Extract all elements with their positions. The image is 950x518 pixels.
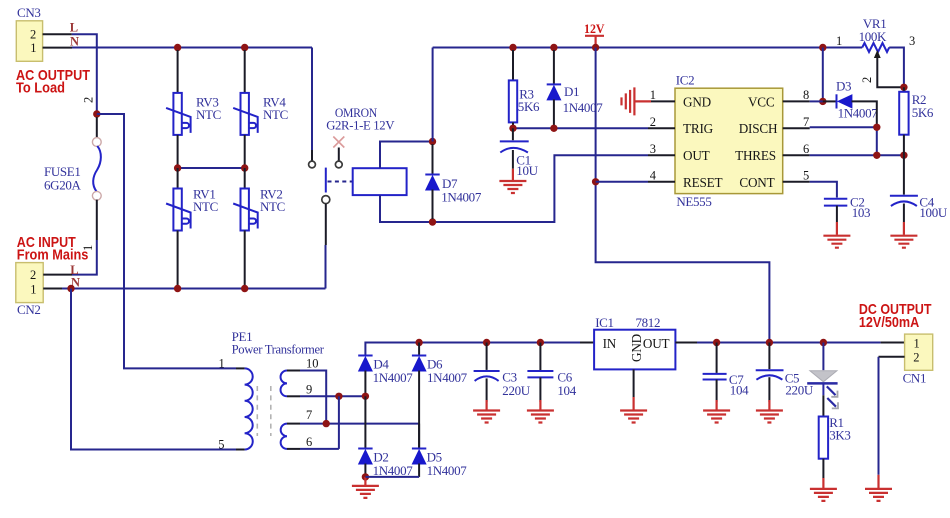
svg-text:IC1: IC1 — [595, 315, 613, 330]
svg-text:220U: 220U — [785, 383, 813, 398]
svg-text:D3: D3 — [836, 79, 851, 94]
svg-text:L: L — [70, 20, 78, 34]
connector CN3 pin 2 stub — [43, 33, 72, 35]
svg-text:2: 2 — [30, 268, 36, 282]
node junction bridge ground — [362, 473, 369, 480]
relay fixed contact circle right — [335, 161, 342, 168]
svg-text:103: 103 — [852, 205, 870, 220]
svg-text:NTC: NTC — [260, 199, 285, 214]
transformer pin 10 wire — [287, 371, 326, 424]
IC1 OUT stub — [675, 342, 697, 344]
IC2 pin 2 stub — [648, 127, 675, 129]
relay fixed contact lead left — [311, 150, 313, 161]
node junction pin9-pin6 — [335, 393, 342, 400]
potentiometer VR1 wiper arrow — [874, 50, 904, 87]
svg-text:1: 1 — [30, 282, 36, 296]
resistor R2 — [899, 92, 908, 135]
capacitor C2 — [824, 199, 847, 206]
ground C2 — [823, 236, 850, 248]
connector CN2 — [16, 263, 43, 303]
wire 12V top rail — [433, 47, 863, 49]
IC2 pin 4 stub — [648, 181, 675, 183]
wire from L junction to transformer pin 1 — [97, 114, 236, 368]
svg-text:IC2: IC2 — [676, 73, 694, 88]
thermistor RV2 lead top — [244, 168, 246, 189]
capacitor C5 — [756, 370, 784, 380]
svg-text:10: 10 — [306, 357, 319, 371]
ground C6 — [527, 411, 554, 423]
svg-text:6: 6 — [306, 435, 312, 449]
thermistor RV3 lead bottom — [177, 135, 179, 168]
wire D5 anode to ground — [365, 476, 419, 478]
node junction THRES-DISCH — [873, 152, 880, 159]
wire pin6 to pin9 vertical — [338, 396, 340, 449]
svg-text:2: 2 — [860, 77, 874, 83]
capacitor C2 ground stem — [836, 222, 838, 235]
connector CN3 pin 1 stub — [43, 47, 72, 49]
wire CN1 pin2 to ground — [878, 357, 880, 475]
svg-text:12V/50mA: 12V/50mA — [859, 314, 919, 331]
capacitor C5 top lead — [768, 343, 770, 370]
LED top lead — [822, 343, 824, 371]
svg-text:1N4007: 1N4007 — [373, 370, 414, 385]
svg-text:1N4007: 1N4007 — [427, 370, 468, 385]
capacitor C4 bottom lead — [903, 204, 905, 223]
diode D5 — [412, 449, 426, 465]
capacitor C7 top lead — [716, 343, 718, 373]
svg-text:104: 104 — [557, 383, 576, 398]
relay fixed contact lead right — [338, 148, 340, 161]
resistor R3 lead top — [512, 50, 514, 80]
svg-text:D1: D1 — [564, 84, 579, 99]
node junction rail-C5 — [766, 339, 773, 346]
node junction relay bottom D7 — [429, 218, 436, 225]
relay unused contact X mark — [333, 137, 344, 148]
svg-text:1: 1 — [30, 41, 36, 55]
diode D6 anode lead — [418, 371, 420, 449]
svg-text:1: 1 — [836, 34, 842, 48]
node junction rail-RV3 — [174, 44, 181, 51]
capacitor C7 ground stem — [715, 400, 717, 410]
resistor R2 lead top — [903, 87, 905, 92]
node junction rail-D6 — [415, 339, 422, 346]
svg-text:RESET: RESET — [683, 175, 722, 190]
fuse FUSE1 wavy element — [93, 146, 101, 192]
capacitor C7 — [703, 374, 727, 380]
wire VCC to IC2 pin8 — [810, 100, 823, 102]
IC2 pin 3 stub — [648, 154, 675, 156]
svg-text:OUT: OUT — [643, 336, 670, 351]
capacitor C6 — [527, 371, 553, 377]
wire fuse bottom to CN2 pin 2 — [72, 240, 97, 275]
connector CN3 — [16, 21, 42, 62]
svg-text:1N4007: 1N4007 — [563, 100, 604, 115]
capacitor C2 bottom lead — [836, 206, 838, 222]
node junction rail-C3 — [483, 339, 490, 346]
svg-text:3: 3 — [650, 142, 656, 156]
capacitor C4 — [890, 196, 918, 206]
transformer primary stub top — [236, 367, 245, 369]
diode D4 anode lead — [364, 371, 366, 394]
svg-text:7: 7 — [803, 115, 809, 129]
wire CN1 pin1 stub — [881, 342, 905, 344]
svg-text:GND: GND — [629, 334, 644, 362]
svg-text:CN1: CN1 — [903, 371, 927, 386]
LED D8 — [807, 371, 838, 409]
ground IC2 pin1 sideways — [622, 87, 652, 115]
node junction DISCH — [873, 124, 880, 131]
capacitor C4 ground stem — [903, 222, 905, 235]
wire CONT to C2 — [810, 182, 837, 198]
capacitor C6 top lead — [539, 343, 541, 371]
thermistor RV2 lead bottom — [244, 231, 246, 289]
svg-text:5: 5 — [803, 169, 809, 183]
ground C7 — [703, 411, 730, 423]
capacitor C7 bottom lead — [716, 380, 718, 403]
svg-text:NTC: NTC — [193, 199, 218, 214]
regulator IC1 body — [594, 330, 675, 370]
transformer primary stub bottom — [236, 449, 245, 451]
IC2 pin 6 stub — [783, 154, 810, 156]
wire N rail down to relay contact — [311, 48, 313, 151]
wire bridge rail stub to IC1 — [580, 342, 594, 344]
svg-text:2: 2 — [82, 97, 96, 103]
relay armature — [325, 168, 327, 193]
ground CN1 pin2 — [865, 489, 892, 501]
capacitor C1 top lead — [512, 128, 514, 140]
thermistor RV4 — [233, 93, 258, 135]
fuse FUSE1 bottom terminal circle — [92, 191, 101, 200]
transformer secondary coil bottom — [281, 424, 287, 449]
diode D1 — [547, 84, 561, 100]
capacitor C1 bottom lead — [512, 150, 514, 169]
transformer secondary coil top — [281, 371, 287, 397]
svg-text:100U: 100U — [919, 205, 947, 220]
node junction rail-LED — [820, 339, 827, 346]
svg-text:NTC: NTC — [196, 107, 221, 122]
svg-text:OUT: OUT — [683, 148, 710, 163]
svg-text:G2R-1-E 12V: G2R-1-E 12V — [326, 118, 395, 133]
svg-text:10U: 10U — [516, 163, 538, 178]
diode D5 cathode lead — [418, 424, 420, 449]
svg-text:3: 3 — [909, 34, 915, 48]
svg-text:DISCH: DISCH — [739, 121, 778, 136]
thermistor RV2 — [233, 189, 258, 231]
diode D6 cathode lead — [418, 343, 420, 356]
svg-text:2: 2 — [913, 350, 919, 364]
diode D3 (points left) — [837, 94, 853, 108]
capacitor C6 ground stem — [539, 400, 541, 410]
ground IC1 — [620, 411, 647, 423]
svg-text:6G20A: 6G20A — [44, 178, 81, 193]
svg-text:From Mains: From Mains — [17, 247, 89, 264]
relay fixed contact circle left — [309, 161, 316, 168]
ground C4 — [890, 236, 917, 248]
connector CN1 pin 2 stub — [879, 356, 905, 358]
IC2 pin 8 stub — [783, 100, 810, 102]
svg-text:NTC: NTC — [263, 107, 288, 122]
svg-text:5: 5 — [218, 438, 224, 452]
diode D1 cathode lead — [553, 50, 555, 84]
wire VCC vertical — [822, 48, 824, 102]
fuse FUSE1 bottom lead — [96, 200, 98, 240]
CN1 pin2 ground stem — [877, 475, 879, 488]
thermistor RV1 — [166, 189, 191, 231]
bridge ground stem — [364, 477, 366, 485]
node junction THRES-R2 — [900, 152, 907, 159]
thermistor RV1 lead top — [177, 168, 179, 189]
capacitor C3 bottom lead — [486, 378, 488, 402]
ground C1 — [499, 181, 526, 193]
transformer core dashed lines — [257, 386, 271, 436]
capacitor C4 top lead — [903, 155, 905, 194]
node junction R3-C1 — [509, 125, 516, 132]
capacitor C3 — [474, 371, 500, 381]
svg-text:1N4007: 1N4007 — [373, 463, 414, 478]
svg-text:VCC: VCC — [748, 94, 775, 109]
node junction rail-12V — [592, 44, 599, 51]
resistor R3 — [509, 80, 517, 122]
svg-text:NE555: NE555 — [676, 194, 711, 209]
node junction rail-RV4 — [241, 44, 248, 51]
potentiometer VR1 zigzag — [862, 43, 889, 52]
node junction RESET — [592, 178, 599, 185]
svg-text:12V: 12V — [584, 22, 605, 36]
wire TRIG line — [513, 127, 648, 129]
wire L from CN3 down to fuse junction — [72, 34, 97, 114]
node junction N-RV1 — [174, 285, 181, 292]
relay common contact circle — [322, 196, 330, 204]
capacitor C3 ground stem — [486, 400, 488, 410]
wire relay coil top to 12V — [380, 142, 433, 169]
svg-text:Power Transformer: Power Transformer — [232, 342, 325, 357]
thermistor RV3 — [166, 93, 191, 135]
svg-text:1N4007: 1N4007 — [427, 463, 468, 478]
node junction RV3-RV1 — [174, 164, 181, 171]
node junction VCC-D3 — [819, 98, 826, 105]
ground R1 — [810, 489, 837, 501]
capacitor C3 top lead — [486, 343, 488, 370]
ground bridge — [352, 486, 379, 498]
connector CN1 — [905, 334, 933, 370]
thermistor RV3 lead top — [177, 50, 179, 93]
diode D2 — [358, 449, 372, 465]
wire relay common to N rail — [325, 245, 327, 289]
wire middle joining RVs — [178, 167, 245, 169]
diode D7 — [425, 175, 439, 191]
wire DISCH line — [810, 127, 877, 155]
diode D6 — [412, 356, 426, 372]
resistor R2 lead bottom — [903, 135, 905, 156]
svg-text:GND: GND — [683, 94, 711, 109]
node junction CN2-N — [67, 285, 74, 292]
svg-text:To Load: To Load — [16, 80, 65, 97]
capacitor C1 ground stem — [512, 169, 514, 180]
IC2 pin 7 stub — [783, 127, 810, 129]
node junction rail-D1 — [550, 44, 557, 51]
svg-text:IN: IN — [603, 336, 617, 351]
capacitor C5 bottom lead — [768, 377, 770, 402]
svg-text:2: 2 — [650, 115, 656, 129]
svg-text:220U: 220U — [502, 383, 530, 398]
svg-text:104: 104 — [730, 383, 749, 398]
connector CN2 pin 1 stub — [43, 288, 62, 290]
svg-text:9: 9 — [306, 383, 312, 397]
diode D7 anode lead — [432, 190, 434, 220]
svg-text:1N4007: 1N4007 — [838, 106, 879, 121]
svg-text:N: N — [70, 34, 79, 48]
thermistor RV4 lead bottom — [244, 135, 246, 168]
diode D4 — [358, 356, 372, 372]
wire N bottom rail — [62, 288, 326, 290]
node junction rail-R3 — [509, 44, 516, 51]
node junction RV4-RV2 — [241, 164, 248, 171]
ground C3 — [473, 411, 500, 423]
ground C5 — [756, 411, 783, 423]
wire bridge top rail to IC1 — [365, 343, 580, 356]
svg-text:CONT: CONT — [739, 175, 774, 190]
svg-text:1: 1 — [650, 88, 656, 102]
wire THRES line — [810, 154, 904, 156]
wire 12V rail down to relay — [432, 48, 434, 142]
wire N down to transformer pin 5 — [71, 289, 236, 450]
svg-text:1: 1 — [914, 337, 920, 351]
IC1 GND stem — [633, 369, 635, 397]
svg-text:THRES: THRES — [735, 148, 776, 163]
node junction D4-D2-pin9 — [362, 393, 369, 400]
thermistor RV1 lead bottom — [177, 231, 179, 289]
svg-text:TRIG: TRIG — [683, 121, 714, 136]
svg-text:2: 2 — [30, 27, 36, 41]
wire DC output rail — [697, 342, 881, 344]
diode D3 anode wire to DISCH — [852, 101, 877, 124]
resistor R3 lead bottom — [512, 122, 514, 128]
thermistor RV4 lead top — [244, 50, 246, 93]
diode D7 cathode lead — [432, 144, 434, 175]
fuse FUSE1 top lead — [96, 117, 98, 138]
transformer pin 7 wire — [287, 423, 419, 425]
svg-text:8: 8 — [803, 88, 809, 102]
resistor R1 — [819, 417, 828, 459]
node junction rail-VCC — [819, 44, 826, 51]
node junction L-fuse — [93, 110, 100, 117]
node junction pin10-pin7 — [323, 420, 330, 427]
diode D5 anode lead — [418, 464, 420, 477]
node junction rail-C6 — [537, 339, 544, 346]
wire RESET to IC2 — [596, 181, 648, 183]
diode D2 anode lead — [364, 464, 366, 477]
svg-text:3K3: 3K3 — [829, 428, 850, 443]
transformer pin 6 wire — [287, 448, 339, 450]
potentiometer VR1 terminal 3 wire — [889, 48, 904, 88]
svg-text:7812: 7812 — [636, 315, 661, 330]
wire relay coil bottom to NE555 OUT — [380, 155, 648, 222]
fuse FUSE1 top terminal circle — [92, 138, 101, 147]
node junction D1-TRIG — [550, 125, 557, 132]
svg-text:4: 4 — [650, 169, 657, 183]
svg-text:1: 1 — [219, 357, 225, 371]
svg-text:5K6: 5K6 — [518, 99, 540, 114]
resistor R1 bottom lead — [822, 459, 824, 478]
LED bottom lead — [822, 395, 824, 416]
wire N top rail from CN3 to relay contact — [72, 47, 312, 49]
transformer pin 9 wire — [287, 395, 365, 397]
node junction VR1-R2 — [900, 84, 907, 91]
capacitor C6 bottom lead — [539, 377, 541, 402]
svg-text:CN2: CN2 — [17, 302, 41, 317]
svg-text:5K6: 5K6 — [912, 105, 934, 120]
IC1 ground stem red — [632, 397, 634, 410]
svg-text:1N4007: 1N4007 — [441, 190, 482, 205]
relay common lead down — [325, 204, 327, 245]
power port 12V bar — [585, 36, 604, 45]
op-amp IC2 NE555 body — [675, 88, 783, 193]
diode D3 cathode lead — [823, 100, 837, 102]
svg-text:7: 7 — [306, 408, 312, 422]
node junction rail-C7 — [713, 339, 720, 346]
relay coupling dashed line — [328, 181, 353, 183]
svg-text:CN3: CN3 — [17, 5, 41, 20]
diode D1 anode lead — [553, 99, 555, 125]
transformer primary coil — [245, 368, 253, 449]
wire 12V branch down to RESET and DC rail — [596, 48, 770, 343]
resistor R1 ground stem — [822, 478, 824, 488]
IC2 pin 5 stub — [783, 181, 810, 183]
relay coil box — [353, 168, 407, 195]
connector CN2 pin 2 stub — [43, 274, 72, 276]
node junction relay top D7 — [429, 138, 436, 145]
node junction N-RV2 — [241, 285, 248, 292]
svg-text:6: 6 — [803, 142, 809, 156]
diode D2 cathode lead — [364, 396, 366, 448]
capacitor C5 ground stem — [768, 400, 770, 410]
capacitor C1 — [500, 141, 529, 152]
IC2 pin 1 stub — [651, 100, 675, 102]
